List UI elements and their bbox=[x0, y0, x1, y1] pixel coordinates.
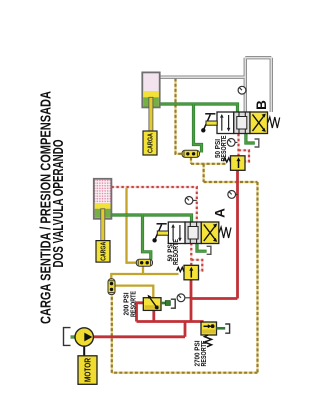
directional valve B body bbox=[217, 112, 268, 134]
cylinder A body bbox=[94, 179, 112, 219]
wire grey tank return from cylinder B cap to valve B top port and overhead loop bbox=[160, 58, 272, 113]
wire green valve B drain to tank bracket bbox=[246, 134, 255, 144]
wire green branch down to shuttle S1 right port bbox=[143, 215, 151, 260]
wire tan dashed bottom drain run bbox=[112, 372, 258, 374]
wire red compensator A feed riser bbox=[190, 280, 193, 322]
label 50 PSI RESORTE valve B bbox=[213, 135, 228, 161]
orifice block 200psi bbox=[165, 301, 170, 306]
svg-text:DOS VALVULA OPERANDO: DOS VALVULA OPERANDO bbox=[50, 139, 67, 267]
pump drive shaft bbox=[83, 346, 85, 356]
wire tan dashed left riser to shuttle S3 bottom bbox=[111, 295, 113, 373]
wire red 200psi bottom port bbox=[152, 310, 155, 321]
gauge G3 valve A pilot bbox=[185, 197, 197, 205]
directional valve A body bbox=[168, 222, 219, 244]
wire green valve A drain to tank bracket bbox=[197, 243, 207, 251]
wire green 200psi outlet stub bbox=[161, 302, 165, 305]
wire tan dashed LS rail to compensator B spring bbox=[191, 163, 226, 165]
wire yellow LS from shuttle S3 side port to 200 PSI margin valve bbox=[115, 286, 153, 298]
load box CARGA A bbox=[96, 241, 110, 263]
svg-text:RESORTE: RESORTE bbox=[171, 239, 180, 265]
label 50 PSI RESORTE valve A bbox=[165, 239, 180, 265]
wire tan dashed pilot from tank-return line down to shuttle S2 left port bbox=[176, 79, 182, 154]
wire tan dashed drain rail to right side bbox=[204, 181, 258, 183]
lever valve A bbox=[152, 224, 168, 243]
svg-text:CARGA: CARGA bbox=[146, 133, 155, 153]
wire red riser from pump rail bbox=[184, 322, 187, 337]
gauge G2 valve B pilot bbox=[227, 139, 237, 147]
tank bracket valve B drain bbox=[255, 139, 259, 147]
svg-text:RESORTE: RESORTE bbox=[128, 291, 137, 317]
svg-text:A: A bbox=[212, 208, 227, 218]
wire pink dashed pilot from cylinder A cap to valve A top port bbox=[111, 187, 196, 222]
shuttle valve S2 bbox=[182, 150, 200, 157]
wire tan dashed shuttle S2 outlet down bbox=[190, 158, 192, 164]
wire yellow LS tap from cylinder A pilot line down to shuttle S1 left port bbox=[127, 188, 137, 263]
gauge G5 pump junction bbox=[177, 294, 190, 302]
200 PSI margin valve bbox=[143, 295, 161, 311]
svg-text:CARGA: CARGA bbox=[99, 242, 108, 261]
label 2700 PSI RESORTE bbox=[193, 340, 208, 366]
wire red compensator supply rail bbox=[191, 297, 238, 300]
spring valve A bbox=[219, 227, 231, 238]
wire pink dashed pilot branch into compensator A side bbox=[191, 260, 202, 271]
svg-text:RESORTE: RESORTE bbox=[219, 135, 228, 161]
svg-text:MOTOR: MOTOR bbox=[83, 358, 92, 382]
wire red compensator B feed riser bbox=[236, 170, 239, 298]
tank bracket pump inlet bbox=[64, 328, 71, 346]
tank bracket 200psi bbox=[171, 299, 175, 308]
spring 2700psi bbox=[205, 335, 212, 347]
tank bracket valve A drain bbox=[207, 246, 211, 254]
wire yellow LS rail shuttle S3 top to compensator A spring bbox=[111, 274, 178, 279]
wire tan dashed branch down from LS rail bbox=[203, 164, 205, 182]
motor box MOTOR bbox=[78, 356, 97, 385]
wire pink dashed pilot branch into compensator B side bbox=[239, 150, 250, 161]
wire green work line cylinder B rod end to valve B top port bbox=[160, 104, 238, 113]
tank bracket 2700psi bbox=[225, 324, 229, 333]
wire tan dashed right vertical drain run bbox=[256, 182, 258, 373]
wire green branch down to shuttle S2 right port bbox=[194, 104, 202, 153]
wire green pump inlet stub bbox=[71, 335, 77, 338]
wire green 2700psi outlet stub bbox=[217, 327, 226, 330]
shuttle valve S1 bbox=[136, 259, 152, 266]
svg-text:RESORTE: RESORTE bbox=[199, 340, 208, 366]
2700 PSI relief valve bbox=[201, 322, 217, 335]
label 200 PSI RESORTE bbox=[122, 291, 138, 317]
wire red lower supply rail bbox=[137, 320, 204, 323]
pressure compensator B bbox=[223, 156, 245, 171]
svg-text:B: B bbox=[254, 100, 269, 110]
wire red 200psi inlet loop bbox=[137, 303, 144, 322]
spring valve B bbox=[268, 117, 280, 128]
cylinder B piston rod bbox=[149, 97, 153, 131]
wire green work line cylinder A rod end to valve A top port bbox=[111, 215, 191, 222]
gauge G4 compensator rail bbox=[228, 191, 238, 199]
lever valve B bbox=[201, 114, 217, 133]
cylinder A piston rod bbox=[101, 209, 105, 241]
gauge G1 tank line bbox=[238, 86, 246, 94]
load box CARGA B bbox=[143, 131, 157, 155]
wire pink dashed pilot valve A to compensator A bbox=[190, 243, 192, 265]
shuttle valve S3 bbox=[108, 279, 115, 295]
wire pink dashed pilot valve B to compensator B bbox=[237, 134, 239, 156]
cylinder B body bbox=[142, 72, 159, 107]
pump P1 bbox=[75, 328, 93, 346]
wire yellow shuttle S1 outlet down bbox=[142, 266, 144, 274]
wire red pump outlet rail bbox=[93, 335, 186, 338]
wire red relief valve feed bbox=[202, 322, 205, 324]
pressure compensator A bbox=[177, 265, 199, 280]
